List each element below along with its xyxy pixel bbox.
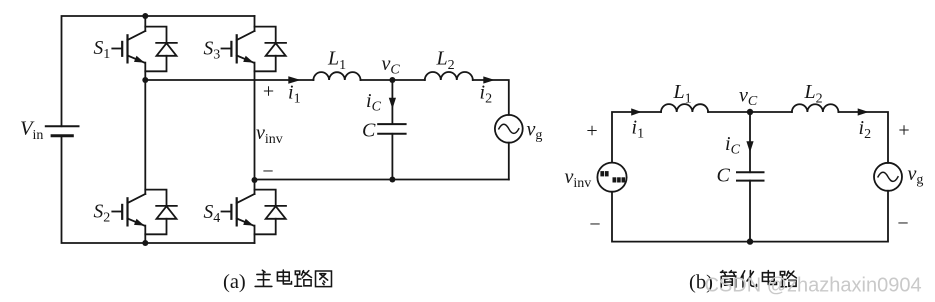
wire S4 collector riser — [254, 180, 256, 194]
inductor L2 (b) — [792, 104, 839, 112]
svg-text:(a): (a) — [223, 271, 246, 293]
svg-text:i2: i2 — [480, 82, 493, 107]
arrow iC — [389, 98, 396, 109]
svg-text:S1: S1 — [94, 38, 111, 62]
battery Vin positive plate — [46, 125, 79, 127]
node: leg2 midpoint (- output) — [252, 177, 258, 183]
wire: + output to L1 — [145, 79, 313, 81]
wire: L1 to vg corner — [361, 79, 425, 81]
wire S1 collector riser — [144, 16, 146, 31]
svg-text:L2: L2 — [436, 48, 455, 74]
wire: L2 to vg — [473, 80, 509, 115]
svg-text:vC: vC — [739, 85, 758, 110]
wire: L2 to right corner (b) — [838, 112, 888, 163]
glyph jian — [721, 271, 737, 288]
wire S3 collector riser — [254, 16, 256, 31]
svg-text:S4: S4 — [204, 202, 221, 226]
arrow i2 — [483, 76, 495, 83]
wire S2 collector riser — [144, 80, 146, 194]
sine wave inside vg — [499, 124, 519, 133]
svg-text:−: − — [897, 213, 908, 235]
svg-text:+: + — [586, 120, 597, 142]
transistor S4 — [222, 190, 287, 235]
node: bottom rail / leg1 junction — [142, 240, 148, 246]
svg-text:L2: L2 — [804, 81, 823, 107]
svg-text:S3: S3 — [204, 39, 221, 63]
svg-text:vg: vg — [527, 119, 543, 144]
inductor L1 (b) — [661, 104, 708, 112]
node capacitor bottom (b) — [747, 238, 753, 244]
transistor S2 — [112, 190, 177, 235]
glyph tu — [316, 271, 332, 287]
wire: capacitor branch upper (b) — [749, 112, 751, 172]
arrow i1 — [288, 76, 300, 83]
wire: top-left of b — [612, 112, 661, 163]
svg-text:CSDN @zhazhaxin0904: CSDN @zhazhaxin0904 — [705, 275, 922, 297]
wire S2 emitter riser — [144, 226, 146, 243]
transistor S3 — [222, 27, 287, 72]
arrow i1 (b) — [631, 108, 642, 115]
wire: L1 to L2 (b) — [708, 111, 792, 113]
glyph dian2 — [762, 271, 776, 285]
wire: left rail lower + bottom rail — [62, 136, 255, 243]
svg-text:C: C — [362, 120, 376, 142]
svg-text:C: C — [717, 165, 731, 187]
wire: capacitor branch lower — [391, 134, 393, 180]
wire S4 emitter riser — [254, 226, 256, 243]
wire: vg bottom riser — [508, 143, 510, 180]
node: top rail / leg1 junction — [142, 13, 148, 19]
node vC (b) — [747, 109, 753, 115]
svg-text:S2: S2 — [94, 202, 111, 226]
capacitor C plates (b) — [737, 172, 764, 180]
svg-text:vg: vg — [908, 163, 924, 188]
sine wave inside vg (b) — [878, 172, 898, 181]
svg-text:i2: i2 — [859, 117, 872, 142]
battery Vin negative plate — [52, 134, 72, 137]
inductor L1 — [313, 72, 360, 80]
caption CJK (a): zhu dian lu tu — [255, 270, 331, 287]
svg-text:i1: i1 — [288, 82, 301, 107]
wire: minus rail — [255, 179, 509, 181]
transistor S1 — [112, 27, 177, 72]
inductor L2 — [425, 72, 473, 80]
wire: bottom rail (b) — [612, 191, 888, 242]
node: leg1 midpoint (+ output) — [142, 77, 148, 83]
svg-text:iC: iC — [725, 133, 741, 158]
node capacitor bottom — [389, 177, 395, 183]
wire: capacitor branch upper — [391, 80, 393, 124]
svg-text:vinv: vinv — [256, 122, 283, 147]
svg-text:vinv: vinv — [565, 166, 592, 191]
wire S1 emitter riser — [144, 63, 146, 80]
svg-text:Vin: Vin — [20, 118, 43, 144]
glyph hua — [741, 271, 757, 288]
svg-text:+: + — [898, 120, 909, 142]
glyph zhu — [255, 270, 272, 286]
wire S3 emitter riser (down to minus node) — [254, 63, 256, 180]
svg-text:iC: iC — [366, 90, 382, 115]
source vg circle — [495, 115, 523, 143]
source vg circle (b) — [874, 163, 902, 191]
glyph lu2 — [780, 271, 797, 287]
svg-text:L1: L1 — [327, 48, 346, 74]
glyph dian — [277, 270, 291, 284]
svg-text:i1: i1 — [632, 117, 645, 142]
glyph lu — [295, 271, 312, 287]
svg-text:vC: vC — [382, 53, 401, 78]
source vinv circle — [597, 163, 626, 192]
svg-text:+: + — [263, 81, 274, 103]
svg-text:L1: L1 — [673, 81, 692, 107]
node vC — [389, 77, 395, 83]
svg-text:−: − — [589, 214, 600, 236]
wire: capacitor branch lower (b) — [749, 181, 751, 242]
capacitor C plates — [378, 124, 405, 134]
arrow iC (b) — [746, 141, 753, 152]
caption CJK (b): jian hua dian lu — [721, 271, 797, 288]
PWM symbol inside vinv — [600, 171, 625, 182]
arrow i2 (b) — [858, 108, 869, 115]
wire: top rail + left rail upper — [62, 16, 255, 126]
